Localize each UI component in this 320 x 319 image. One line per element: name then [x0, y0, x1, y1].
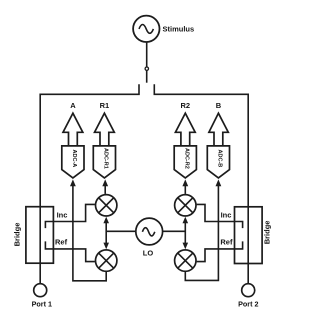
svg-text:Bridge: Bridge — [13, 223, 22, 247]
svg-text:ADC-R1: ADC-R1 — [102, 148, 108, 169]
svg-text:Ref: Ref — [55, 238, 68, 247]
svg-text:R2: R2 — [181, 101, 191, 110]
svg-text:ADC-A: ADC-A — [71, 150, 77, 168]
svg-text:Stimulus: Stimulus — [163, 24, 195, 33]
svg-text:Port 1: Port 1 — [32, 300, 52, 309]
svg-text:A: A — [70, 101, 76, 110]
svg-text:ADC-B: ADC-B — [216, 150, 222, 168]
svg-text:Bridge: Bridge — [263, 221, 272, 245]
svg-text:ADC-R2: ADC-R2 — [183, 148, 189, 169]
svg-text:Port 2: Port 2 — [238, 300, 258, 309]
svg-text:R1: R1 — [100, 101, 110, 110]
svg-text:LO: LO — [143, 249, 154, 258]
svg-text:B: B — [216, 101, 222, 110]
svg-text:Ref: Ref — [220, 238, 233, 247]
svg-text:Inc: Inc — [57, 210, 68, 219]
svg-text:Inc: Inc — [221, 210, 232, 219]
